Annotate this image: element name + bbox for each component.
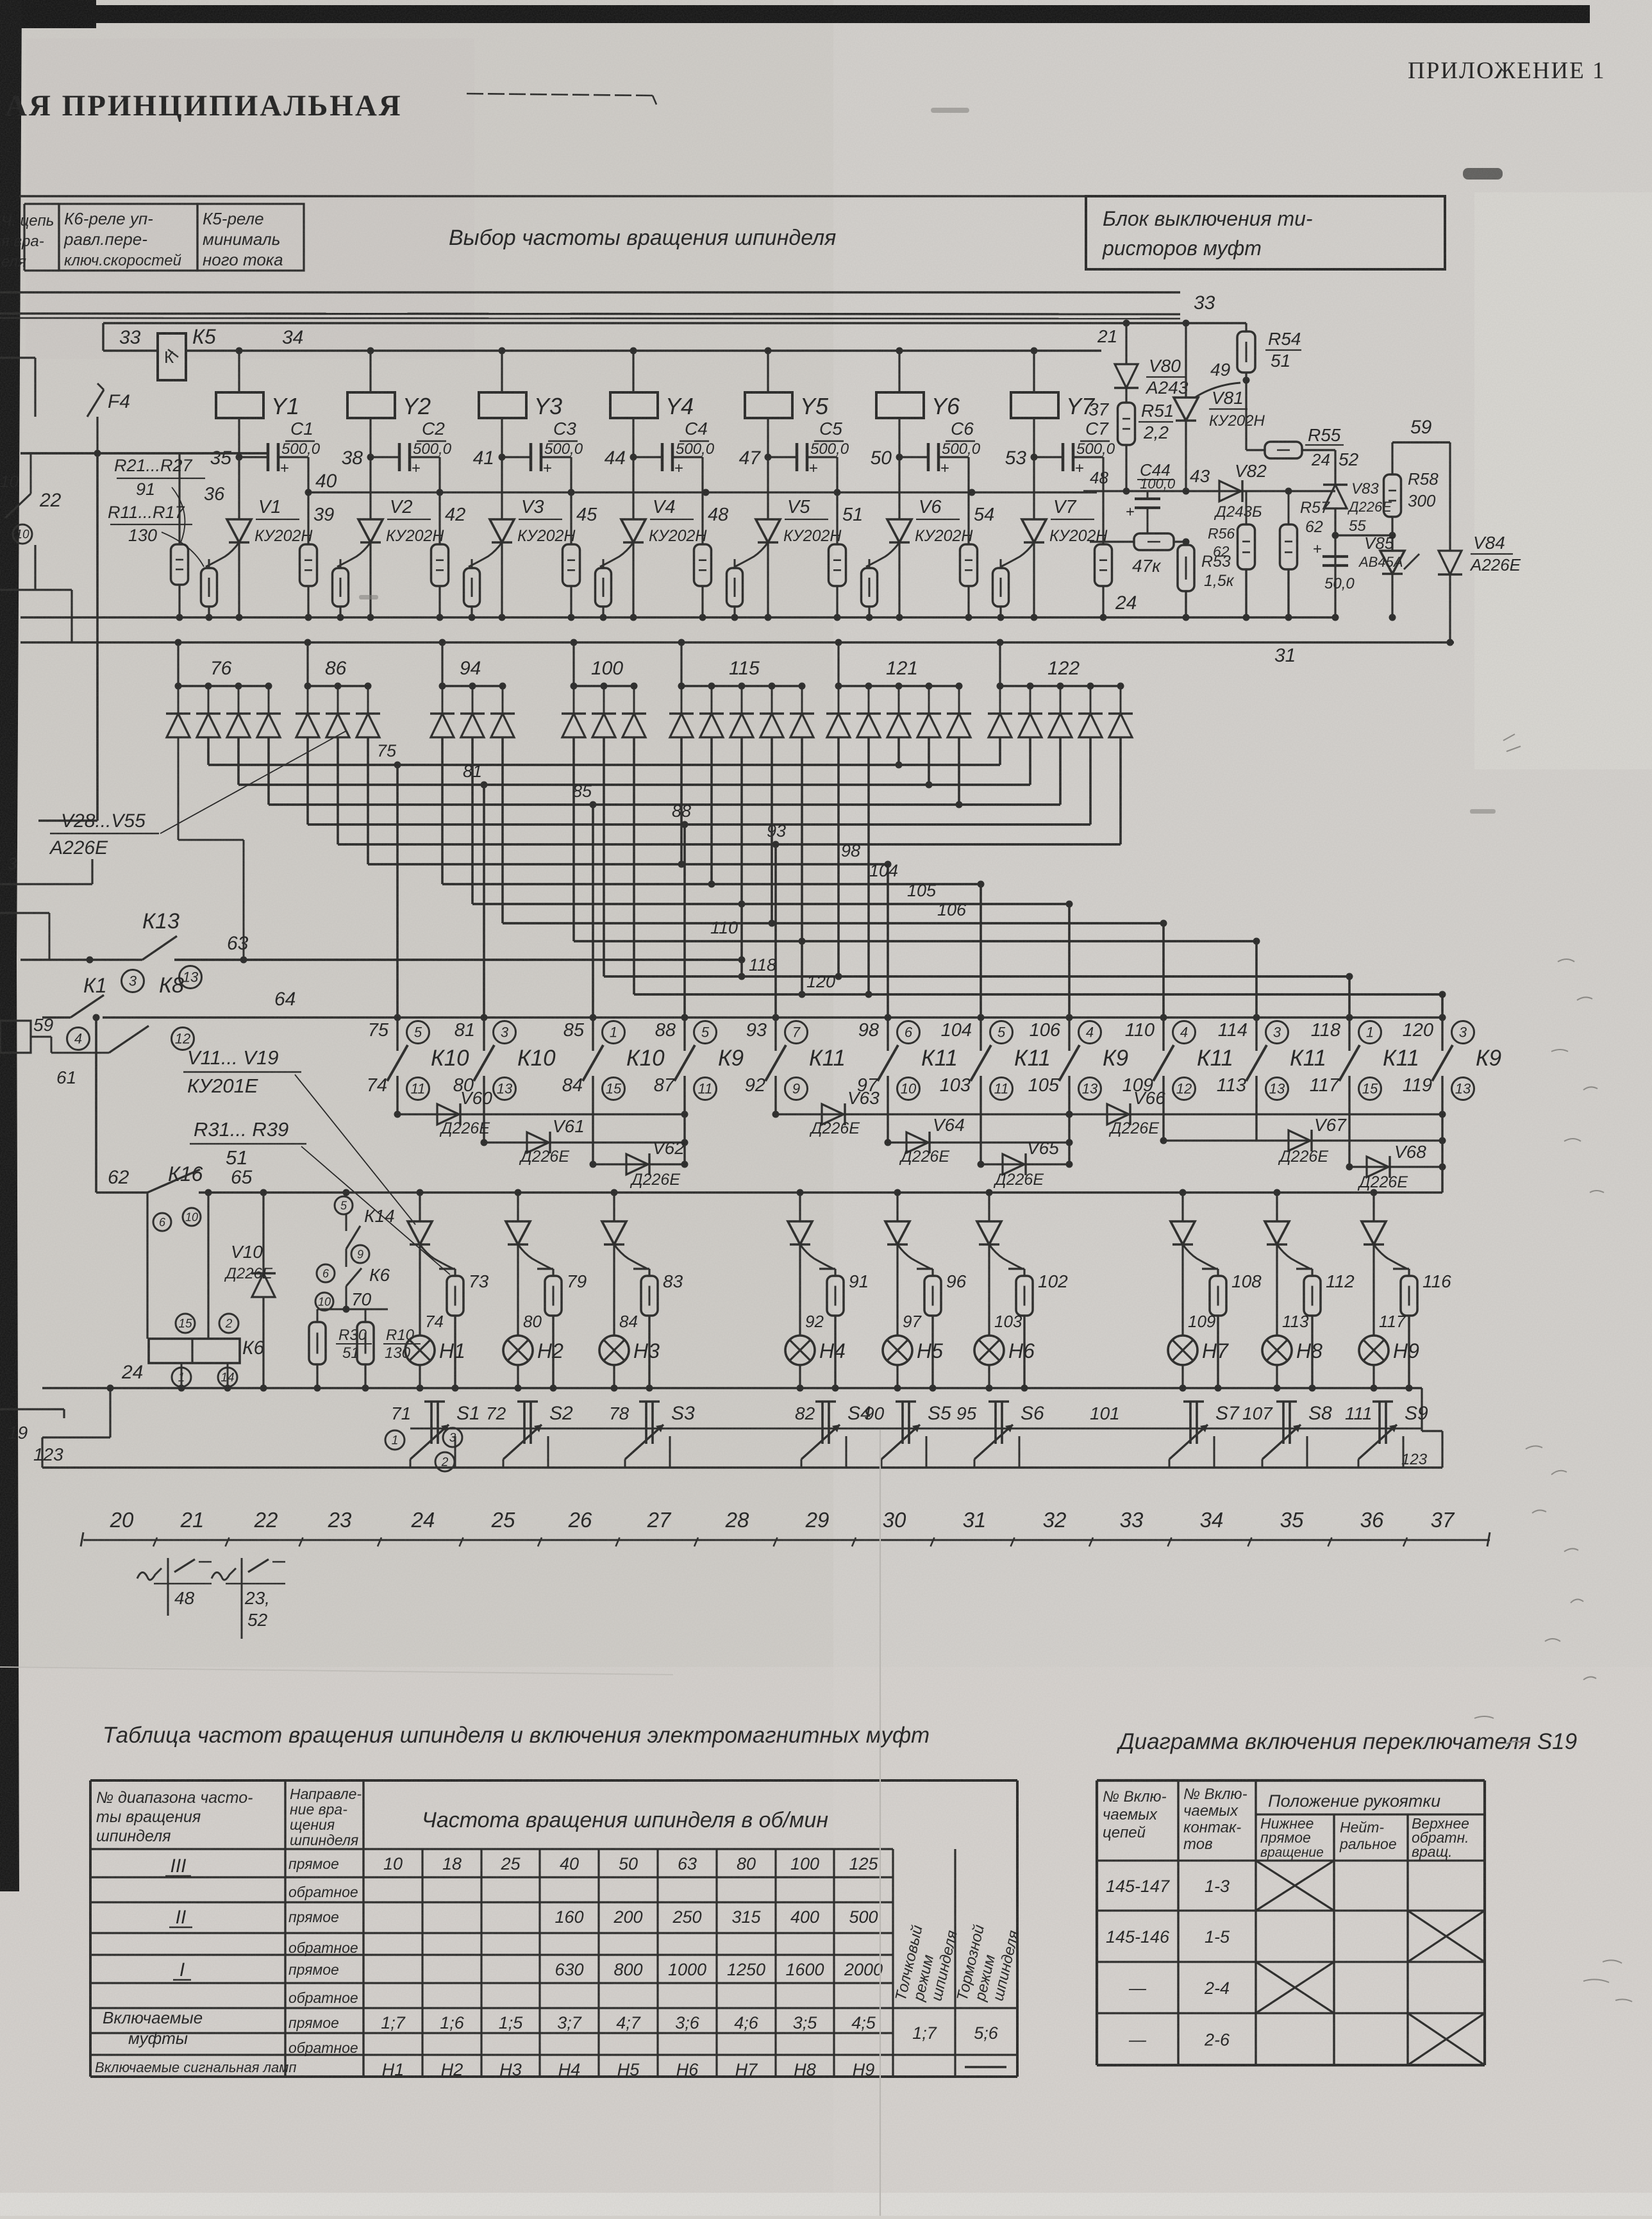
lamp Н7 (1168, 1336, 1229, 1392)
diode group 122 top bus (997, 639, 1124, 690)
capacitor C6 (899, 419, 981, 477)
resistor pair 48 (694, 492, 743, 617)
resistor 116 branch (1379, 1269, 1451, 1392)
right table grid (1097, 1780, 1485, 2065)
diode group 100 top bus (571, 639, 638, 690)
resistor R56 62 (1208, 491, 1255, 617)
switch S8 (1242, 1402, 1332, 1468)
wire bus 65 (93, 1014, 1443, 1232)
diode V28-group 76 #2 (196, 686, 221, 737)
node 38 (342, 448, 374, 469)
diode V10 Д226Е (224, 1193, 276, 1388)
switch S7 (1090, 1402, 1240, 1468)
lamp column Н1 thyristor (408, 1189, 453, 1336)
ink smudge right (1463, 168, 1503, 180)
resistor 112 branch (1282, 1269, 1355, 1392)
resistor R21...R27 91 (left) (114, 453, 225, 617)
resistor 102 branch (994, 1269, 1068, 1392)
relay coil Y4 (610, 351, 694, 419)
matrix bus 81 (238, 737, 1030, 1017)
lamp Н9 (1359, 1336, 1419, 1392)
diode V28-group 76 #4 (256, 686, 281, 737)
diode V61 Д226Е (481, 1116, 688, 1166)
label V28...V55 А226Е (49, 731, 346, 858)
contact K14 K6 chain (315, 1196, 395, 1313)
diode V28-group 86 #1 (296, 686, 320, 737)
relay coil Y6 (876, 351, 960, 419)
matrix bus 106 (503, 737, 1167, 1017)
switch S1 pin circles (385, 1428, 462, 1471)
wire top rail 33 (103, 323, 1246, 351)
diode V62 Д226Е (590, 1138, 688, 1189)
capacitor C5 (768, 419, 849, 477)
diode V68 Д226Е (1346, 1142, 1446, 1191)
diode V28-group 115 #5 (790, 686, 814, 737)
lamp Н4 (785, 1336, 846, 1392)
diode group 115 top bus (678, 639, 806, 690)
thyristor V85 АВ45А (1358, 532, 1419, 618)
diode V28-group 122 #4 (1078, 686, 1103, 737)
resistor R54 51 (1195, 323, 1301, 450)
header band bottom rules (0, 292, 1180, 319)
diode V28-group 86 #2 (326, 686, 350, 737)
diode V28-group 94 #3 (490, 686, 515, 737)
diode V28-group 115 #4 (760, 686, 784, 737)
wire bus 64 with contact K8 (42, 973, 1442, 1050)
contact К10 column 85 (562, 1014, 665, 1165)
resistor pair 45 (563, 492, 612, 617)
diode V28-group 121 #2 (856, 686, 881, 737)
wire rail 31 upper (21, 642, 1454, 666)
diode V28-group 115 #3 (730, 686, 754, 737)
lamp Н6 (974, 1336, 1035, 1392)
thyristor V6 КУ202Н (866, 457, 973, 617)
diode V28-group 100 #2 (592, 686, 616, 737)
diode V28-group 115 #1 (669, 686, 694, 737)
wire coil Y7 to node 53 (1033, 418, 1035, 457)
wire node 50 down to rail 40 (967, 457, 969, 492)
matrix bus 118 (604, 737, 1353, 1017)
right table data rows (1106, 1861, 1485, 2065)
relay coil Y7 (1011, 351, 1096, 419)
left table data rows (381, 1854, 883, 2079)
switch S5 (864, 1402, 951, 1468)
diode V28-group 76 #3 (226, 686, 251, 737)
diode V83 Д226Е (1323, 450, 1392, 617)
relay coil Y2 (347, 351, 431, 419)
header box К6-реле управл. переключ. скоростей (59, 204, 197, 271)
contact symbol 23 52 below scale (212, 1558, 285, 1639)
resistor 96 branch (903, 1269, 967, 1392)
paper fold crease vertical (880, 1430, 881, 2216)
matrix bus 75 (208, 737, 1000, 1017)
labels V11...V19 КУ201Е (183, 1046, 415, 1225)
capacitor C4 (633, 419, 715, 477)
resistor 83 branch (619, 1269, 683, 1392)
matrix bus 110 (574, 737, 1260, 1017)
diode V28-group 121 #3 (887, 686, 911, 737)
resistor R52 47к (1090, 533, 1190, 576)
matrix bus 85 (269, 737, 1060, 1017)
wire coil Y6 to node 50 (898, 418, 900, 457)
resistor pair 57/ right of V7 (1095, 492, 1112, 617)
wire coil Y2 to node 38 (369, 418, 371, 457)
resistor R51 2,2 (1118, 401, 1174, 491)
capacitor C7 (1034, 419, 1115, 477)
wire bus 63 with contact K13 (21, 909, 742, 992)
resistor 73 branch (425, 1269, 489, 1392)
diode V28-group 122 #3 (1048, 686, 1072, 737)
matrix bus 98 (368, 737, 892, 1017)
diode V66 Д226Е (1066, 1088, 1446, 1137)
diode V80 А243 (1114, 356, 1189, 403)
lamp column Н3 thyristor (602, 1189, 647, 1336)
resistor pair 39 (300, 492, 349, 617)
diode group 76 top bus (175, 639, 272, 690)
diode V28-group 121 #5 (947, 686, 971, 737)
diode V28-group 76 #1 (166, 686, 190, 737)
resistor pair 42 (431, 492, 480, 617)
diode group 121 top bus (835, 639, 963, 690)
relay K1 contact and block 59 small (0, 1015, 149, 1087)
node rail-34 column Y6 (896, 348, 903, 355)
capacitor C2 (371, 419, 452, 477)
node rail-34 column Y3 (499, 348, 506, 355)
lamp Н2 (503, 1336, 563, 1392)
label ПРИЛОЖЕНИЕ 1 (1408, 58, 1605, 84)
contact К10 column 81 (453, 1014, 556, 1143)
lamp Н3 (599, 1336, 660, 1392)
diode V67 Д226Е (1160, 1115, 1446, 1166)
diode V28-group 121 #1 (826, 686, 851, 737)
diode V28-group 121 #4 (917, 686, 941, 737)
wire rail 40 (305, 471, 1097, 496)
contact К11 column 98 (857, 1014, 958, 1143)
wire coil Y5 to node 47 (767, 418, 769, 457)
wire bus 123 (33, 1388, 1442, 1468)
node rail-34 column Y4 (630, 348, 637, 355)
wire K16 columns down to relay K6 (147, 1193, 208, 1339)
left table clutch extra cells (912, 2023, 1006, 2067)
diode V28-group 94 #2 (460, 686, 485, 737)
header caption Выбор частоты вращения шпинделя (449, 226, 836, 250)
block 59 outline (1392, 417, 1450, 551)
contact К11 column 93 (745, 1014, 846, 1115)
left block (cut) with contact K10 (0, 358, 72, 642)
wire coil Y1 to node 35 (238, 418, 240, 457)
diode group 94 top bus (439, 639, 506, 690)
left stub wire 23 (0, 854, 92, 884)
wire node 38 down to rail 40 (438, 457, 440, 492)
capacitor C15 50,0 (1313, 540, 1355, 592)
switch S4 (795, 1402, 871, 1468)
wire node 53 down to rail 40 (1102, 457, 1104, 492)
capacitor C44 100,0 (1126, 460, 1176, 533)
header box Блок выключения тиристоров муфт (1086, 196, 1445, 269)
diode V28-group 122 #1 (988, 686, 1012, 737)
wire node 47 down to rail 40 (836, 457, 838, 492)
wire coil Y3 to node 41 (501, 418, 503, 457)
node rail-34 column Y7 (1031, 348, 1038, 355)
diode V65 Д226Е (978, 1138, 1073, 1189)
node rail-34 column Y2 (367, 348, 374, 355)
faint crease under scale (0, 1667, 673, 1675)
scan black top edge (0, 0, 1590, 28)
left table grid (90, 1780, 1017, 2077)
thyristor V4 КУ202Н (600, 457, 707, 617)
resistor R10 130 (346, 1309, 421, 1388)
dashed ruling line top centre (467, 94, 656, 105)
node 41 (473, 448, 506, 469)
contact К11 column 118 (1310, 1014, 1419, 1168)
node 53 (1005, 448, 1038, 469)
matrix bus 93 (338, 737, 1121, 1017)
resistor pair 54 (960, 492, 1009, 617)
lamp Н8 (1262, 1336, 1322, 1392)
resistor 91 branch (805, 1269, 869, 1392)
resistor 108 branch (1188, 1269, 1262, 1392)
contact К11 column 104 (940, 1014, 1051, 1165)
header band top rule (19, 195, 1446, 197)
relay coil Y5 (745, 351, 829, 419)
wire 55 (1332, 517, 1393, 539)
matrix bus 105 (472, 737, 1073, 1017)
wire bus 24 lower (42, 1362, 1422, 1468)
left table title (103, 1723, 930, 1748)
thyristor V2 КУ202Н (337, 457, 444, 617)
right table title (1116, 1729, 1577, 1754)
wire 21 vertical (1097, 320, 1130, 365)
relay K6 box (149, 1314, 265, 1388)
left stub wire down to 63 (0, 913, 49, 960)
node 33 top right (1183, 292, 1215, 398)
diode V28-group 94 #1 (430, 686, 455, 737)
lamp column Н7 thyristor (1171, 1189, 1216, 1336)
diode group 86 top bus (305, 639, 372, 690)
wire node 35 down to rail 40 (307, 457, 309, 492)
title АЯ ПРИНЦИПИАЛЬНАЯ (5, 89, 403, 122)
thyristor V1 КУ202Н (206, 457, 313, 617)
sheet fold scale 20-37 (81, 1508, 1490, 1546)
resistor R53 1,5к (1178, 545, 1235, 617)
contact К10 column 75 (367, 1014, 469, 1115)
thyristor V3 КУ202Н (469, 457, 576, 617)
lamp Н1 (405, 1336, 465, 1392)
lamp column Н5 thyristor (885, 1189, 931, 1336)
lamp column Н8 thyristor (1265, 1189, 1310, 1336)
left table rotated captions (892, 1923, 1023, 2003)
wire node 43 line (1083, 466, 1335, 495)
lamp column Н2 thyristor (506, 1189, 551, 1336)
matrix bus 104 (442, 737, 985, 1017)
thyristor V5 КУ202Н (735, 457, 842, 617)
smudge marks (359, 108, 1496, 814)
contact К9 column 120 (1403, 1014, 1501, 1193)
resistor R55 24 (1246, 425, 1359, 469)
matrix bus 88 (308, 737, 1090, 1017)
matrix deep stub 1251 to bus 120 (799, 737, 806, 998)
node 35 (210, 448, 243, 469)
switch S6 (956, 1402, 1044, 1468)
resistor 79 branch (523, 1269, 587, 1392)
node rail-34 column Y1 (236, 348, 243, 355)
wire node 41 down to rail 40 (570, 457, 572, 492)
resistor R11...R17 130 (left) (108, 503, 217, 617)
resistor R58 300 (1384, 469, 1439, 551)
node 44 (605, 448, 637, 469)
thyristor V7 КУ202Н (1001, 457, 1108, 617)
scan black left edge (0, 0, 22, 1891)
diode V28-group 100 #3 (622, 686, 646, 737)
switch S3 (609, 1402, 695, 1468)
resistor R30 51 (309, 1309, 372, 1388)
wire switch rail (410, 1428, 1422, 1430)
wire F4 column down (38, 453, 97, 821)
left table range labels (95, 1855, 296, 2075)
diode V60 Д226Е (394, 1088, 688, 1137)
scanner noise right margin (1474, 734, 1632, 2002)
diode V28-group 122 #5 (1108, 686, 1133, 737)
matrix bus 120 (634, 737, 1446, 1017)
wire rail 24 upper (21, 592, 1335, 621)
header box К5-реле минимального тока (197, 204, 304, 271)
switch S9 (1345, 1402, 1428, 1468)
lamp column Н9 thyristor (1362, 1189, 1407, 1336)
node 47 (739, 448, 772, 469)
fuse F4 (87, 383, 130, 453)
node dots rails right (1183, 614, 1454, 646)
relay K5 (158, 333, 186, 380)
contact К9 column 106 (1028, 1014, 1128, 1165)
diode V64 Д226Е (885, 1115, 1073, 1166)
contact symbol 48 below scale (137, 1558, 212, 1616)
relay coil Y3 (479, 351, 562, 419)
diode V84 А226Е (1438, 533, 1521, 642)
right table header texts (1103, 1786, 1469, 1860)
diode 76 long stub to node 63 (178, 737, 244, 960)
diode V28-group 122 #2 (1018, 686, 1042, 737)
wire coil Y4 to node 44 (632, 418, 634, 457)
labels R31...R39 51 (190, 1118, 450, 1275)
diode V82 Д243Б (1214, 461, 1267, 521)
switch S2 (486, 1402, 573, 1468)
relay coil Y1 (216, 351, 299, 419)
left table direction column texts (288, 1855, 358, 2056)
wire 22 node line (21, 450, 268, 457)
capacitor C3 (502, 419, 583, 477)
resistor pair 51 (829, 492, 878, 617)
diode V28-group 115 #2 (699, 686, 724, 737)
lamp column Н6 thyristor (977, 1189, 1022, 1336)
contact К11 column 114 (1217, 1014, 1326, 1141)
left stub wire 19 (0, 1409, 64, 1443)
capacitor C1 (239, 419, 321, 477)
thyristor V81 КУ202Н (1174, 388, 1265, 491)
node rail-34 column Y5 (765, 348, 772, 355)
lamp column Н4 thyristor (788, 1189, 833, 1336)
matrix deep stub 1157 to bus 63 (738, 737, 746, 980)
lamp Н5 (883, 1336, 943, 1392)
contact К11 column 110 (1122, 1014, 1233, 1141)
node 50 (871, 448, 903, 469)
wire node 44 down to rail 40 (701, 457, 703, 492)
diode V63 Д226Е (772, 1088, 1073, 1137)
header box left (cut) Ч.цепь вращения шпинделя (1, 204, 59, 271)
diode V28-group 86 #3 (356, 686, 380, 737)
wire rail 34 with node labels (103, 325, 1110, 419)
diode V28-group 100 #1 (562, 686, 586, 737)
left table header texts (96, 1786, 828, 1848)
contact К9 column 88 (654, 1014, 744, 1165)
switch S1 (391, 1402, 480, 1468)
resistor R57 62 (1280, 488, 1330, 618)
